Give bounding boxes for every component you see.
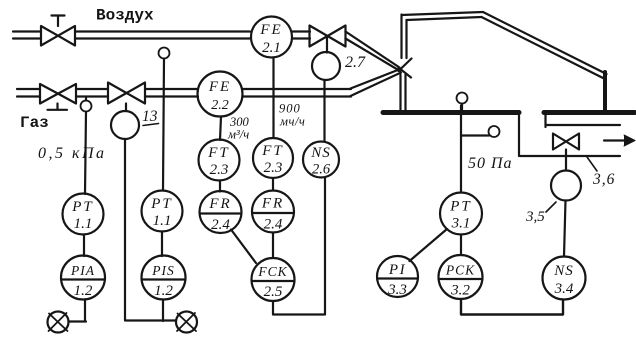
- air pipe (Воздух) double line: [13, 32, 310, 39]
- wire FR2.4a to FCK2.5 diagonal: [231, 230, 256, 264]
- svg-text:3,5: 3,5: [525, 209, 545, 225]
- leader line 3.5: [546, 202, 556, 212]
- air pipe diagonal into furnace: [346, 32, 412, 78]
- drop line from left bar end: [518, 112, 520, 156]
- svg-text:1.1: 1.1: [153, 213, 172, 229]
- instrument FCK 2.5: [252, 258, 295, 301]
- svg-text:PT: PT: [71, 199, 94, 215]
- svg-text:NS: NS: [553, 263, 574, 279]
- svg-text:1.2: 1.2: [154, 283, 173, 299]
- svg-text:2.2: 2.2: [211, 98, 229, 113]
- svg-text:3.3: 3.3: [387, 282, 407, 298]
- gas pipe (Газ) double line: [17, 89, 351, 97]
- svg-text:3.4: 3.4: [554, 281, 574, 297]
- svg-text:FE: FE: [208, 79, 231, 95]
- tick at right bar left end: [544, 115, 546, 127]
- lamp right: [176, 312, 197, 333]
- instrument PT 1.1 (right): [142, 191, 183, 232]
- wire PCK3.2 to NS3.4 bottom connector: [461, 299, 563, 315]
- svg-text:2.4: 2.4: [264, 217, 283, 233]
- lamp left: [48, 312, 69, 333]
- instrument FR 2.4 (gas): [200, 191, 242, 233]
- instrument FT 2.3 (gas): [199, 140, 240, 181]
- valve 3.6: [553, 134, 579, 150]
- svg-text:PT: PT: [150, 196, 173, 212]
- wire chain C down: [163, 59, 164, 191]
- svg-text:PCK: PCK: [445, 263, 475, 278]
- svg-text:PI: PI: [388, 262, 406, 278]
- instrument NS 2.6: [303, 142, 339, 178]
- wire NS2.6 top to actuator 2.7: [323, 80, 325, 142]
- instrument NS 3.4: [543, 257, 586, 300]
- wire actuator 3.5 to NS3.4: [564, 201, 566, 257]
- furnace left wall upper: [402, 15, 407, 59]
- furnace roof diagonal: [482, 12, 607, 78]
- tap circle in furnace: [457, 93, 468, 111]
- label 900 m3/h: [279, 102, 305, 129]
- svg-text:3.2: 3.2: [450, 283, 470, 299]
- svg-text:Газ: Газ: [20, 114, 49, 132]
- instrument FR 2.4 (air): [252, 191, 294, 233]
- valve 2.7 stem: [326, 37, 328, 53]
- svg-text:FT: FT: [207, 145, 230, 161]
- control valve 13: [108, 83, 145, 112]
- svg-text:13: 13: [142, 108, 158, 125]
- instrument PT 3.1: [440, 193, 482, 235]
- instrument PIA 1.2: [61, 256, 105, 300]
- svg-text:мч/ч: мч/ч: [279, 115, 305, 129]
- svg-text:FE: FE: [259, 22, 282, 38]
- svg-text:2.1: 2.1: [262, 40, 281, 56]
- underline of label 13: [143, 124, 159, 126]
- svg-text:1.1: 1.1: [74, 216, 93, 232]
- wire FE2.2 to FT2.3a: [220, 117, 221, 141]
- svg-text:FR: FR: [208, 196, 231, 212]
- actuator of valve 13: [111, 111, 139, 139]
- label 300 m3/h: [227, 115, 250, 142]
- tap circle chain C: [159, 48, 170, 59]
- svg-text:2.7: 2.7: [345, 54, 366, 71]
- instrument FE 2.2: [198, 72, 243, 117]
- instrument FT 2.3 (air): [253, 138, 293, 178]
- wire FT2.3a to FR2.4a: [219, 181, 221, 192]
- wire furnace tap to PT3.1: [460, 106, 462, 193]
- furnace floor bar right: [544, 110, 635, 115]
- instrument PT 1.1 (left): [63, 194, 104, 235]
- wire FCK2.5 to NS2.6 bottom: [273, 178, 325, 315]
- svg-text:2.3: 2.3: [210, 162, 229, 178]
- svg-text:900: 900: [279, 102, 301, 116]
- instrument FE 2.1: [251, 17, 292, 58]
- label 13: [142, 108, 158, 125]
- flue duct top line: [546, 124, 620, 126]
- wire FR2.4b to FCK2.5: [272, 233, 274, 259]
- svg-text:2.3: 2.3: [264, 160, 283, 176]
- leader line 3.6: [587, 157, 597, 171]
- instrument PI 3.3: [377, 256, 418, 298]
- wire FT2.3b to FR2.4b: [272, 178, 274, 191]
- actuator 3.5: [551, 171, 581, 201]
- furnace top wall: [402, 12, 484, 20]
- furnace floor bar left: [383, 110, 519, 115]
- svg-text:2.6: 2.6: [312, 162, 331, 178]
- branch circle near 50 Pa tap: [461, 126, 500, 137]
- svg-text:PIA: PIA: [70, 263, 95, 278]
- svg-text:Воздух: Воздух: [96, 7, 154, 25]
- wire PT1.1a to PIA1.2: [83, 235, 85, 257]
- valve air inlet: [41, 16, 75, 46]
- tap circle on gas pipe (chain A): [81, 97, 92, 112]
- furnace left wall lower: [401, 75, 406, 111]
- valve 3.6 stem: [565, 150, 567, 171]
- svg-text:м³/ч: м³/ч: [227, 128, 249, 142]
- wire PT1.1b to PIS1.2: [161, 232, 163, 257]
- wire PIA1.2 to lamp: [69, 300, 86, 322]
- svg-text:FT: FT: [261, 143, 284, 159]
- wire PIS1.2 down: [162, 300, 164, 322]
- wire FE2.1 to FT2.3b: [272, 59, 274, 139]
- svg-text:0,5 кПа: 0,5 кПа: [38, 145, 107, 162]
- flue duct bottom line: [520, 155, 620, 157]
- valve 2.7: [310, 26, 346, 47]
- instrument PIS 1.2: [142, 256, 186, 300]
- wire valve13 actuator to lamp: [125, 139, 176, 321]
- svg-text:2.4: 2.4: [211, 217, 230, 233]
- svg-text:FCK: FCK: [257, 264, 287, 279]
- wire PT3.1 to PCK3.2: [460, 235, 462, 256]
- valve gas inlet: [40, 84, 76, 110]
- furnace right wall: [603, 72, 607, 111]
- svg-text:1.2: 1.2: [74, 283, 93, 299]
- actuator of valve 2.7: [312, 52, 340, 80]
- gas pipe diagonal into furnace: [351, 59, 412, 97]
- svg-text:50 Па: 50 Па: [468, 155, 513, 172]
- svg-text:PIS: PIS: [151, 263, 175, 278]
- svg-text:2.5: 2.5: [264, 284, 283, 300]
- wire chain A down: [85, 112, 86, 195]
- svg-text:NS: NS: [310, 145, 331, 161]
- svg-text:3,6: 3,6: [592, 171, 615, 188]
- flue arrow: [604, 135, 635, 146]
- svg-text:3.1: 3.1: [451, 216, 471, 232]
- svg-text:PT: PT: [449, 199, 472, 215]
- wire PT3.1 to PI3.3 diagonal: [410, 229, 448, 261]
- instrument PCK 3.2: [439, 255, 483, 299]
- svg-text:FR: FR: [261, 196, 284, 212]
